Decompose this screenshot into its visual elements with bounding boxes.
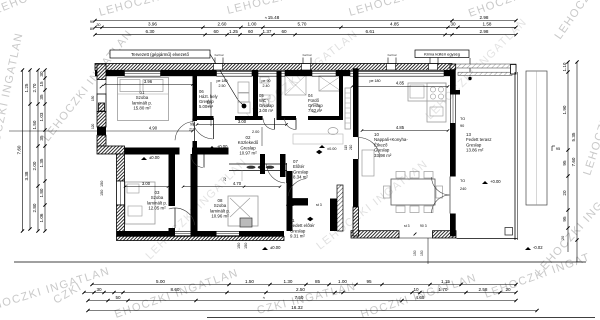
svg-text:1.80: 1.80 <box>39 188 44 197</box>
svg-text:8.60: 8.60 <box>171 287 180 292</box>
svg-text:1.37: 1.37 <box>263 29 272 34</box>
svg-text:1.30: 1.30 <box>284 279 293 284</box>
svg-text:85: 85 <box>315 279 321 284</box>
svg-text:±0.00: ±0.00 <box>327 147 336 151</box>
svg-text:-0.02: -0.02 <box>533 245 543 250</box>
svg-text:30: 30 <box>96 287 102 292</box>
svg-text:7.50: 7.50 <box>295 295 304 300</box>
svg-text:1.10: 1.10 <box>562 62 567 71</box>
svg-text:35: 35 <box>39 135 44 141</box>
svg-text:TO: TO <box>460 117 465 121</box>
svg-text:210: 210 <box>189 128 195 132</box>
svg-text:5.00 m²: 5.00 m² <box>199 104 214 109</box>
svg-text:6.30: 6.30 <box>146 29 155 34</box>
svg-text:4.85: 4.85 <box>396 81 405 86</box>
svg-text:1.70: 1.70 <box>439 287 448 292</box>
svg-text:10.96 m²: 10.96 m² <box>211 214 229 219</box>
svg-text:2.98: 2.98 <box>480 15 489 20</box>
svg-text:1.03: 1.03 <box>39 112 44 121</box>
svg-text:20: 20 <box>562 190 567 196</box>
svg-text:4.65: 4.65 <box>416 295 425 300</box>
svg-text:1.00: 1.00 <box>248 22 257 27</box>
svg-text:150: 150 <box>420 250 424 256</box>
svg-text:13.86 m²: 13.86 m² <box>466 148 484 153</box>
svg-text:240: 240 <box>460 187 466 191</box>
svg-text:90: 90 <box>460 124 464 128</box>
svg-text:15: 15 <box>39 81 44 87</box>
svg-text:150: 150 <box>244 243 248 249</box>
svg-text:80: 80 <box>90 27 94 31</box>
svg-text:1.25: 1.25 <box>24 83 29 92</box>
svg-text:20: 20 <box>561 236 565 240</box>
svg-text:150: 150 <box>413 250 417 256</box>
svg-text:2.80: 2.80 <box>32 203 37 212</box>
svg-text:2.60: 2.60 <box>218 22 227 27</box>
svg-text:95: 95 <box>562 160 567 166</box>
svg-text:st 3: st 3 <box>404 224 410 228</box>
svg-text:4.90: 4.90 <box>149 126 158 131</box>
svg-text:±0.00: ±0.00 <box>270 245 281 250</box>
svg-text:90 3: 90 3 <box>420 224 427 228</box>
svg-text:3.96: 3.96 <box>144 79 153 84</box>
svg-text:1.35: 1.35 <box>39 158 44 167</box>
svg-text:9.31 m²: 9.31 m² <box>290 234 305 239</box>
svg-text:150: 150 <box>100 181 104 187</box>
svg-text:7.60: 7.60 <box>571 157 576 166</box>
svg-text:1.50: 1.50 <box>32 120 37 129</box>
svg-text:±0.00: ±0.00 <box>149 155 160 160</box>
svg-text:2.00: 2.00 <box>252 130 259 134</box>
svg-text:2.50: 2.50 <box>219 84 226 88</box>
svg-text:+0.00: +0.00 <box>490 179 501 184</box>
svg-text:30: 30 <box>39 71 44 77</box>
svg-text:bal bal: bal bal <box>303 53 312 57</box>
svg-text:150: 150 <box>91 95 95 101</box>
svg-text:30: 30 <box>97 23 101 27</box>
svg-text:2.70: 2.70 <box>32 83 37 92</box>
svg-text:22: 22 <box>223 177 227 181</box>
svg-text:10.97 m²: 10.97 m² <box>239 151 257 156</box>
svg-text:1.90: 1.90 <box>562 105 567 114</box>
svg-text:95: 95 <box>366 279 372 284</box>
svg-text:±0.00: ±0.00 <box>217 144 228 149</box>
svg-text:1.00: 1.00 <box>338 279 347 284</box>
svg-text:bal bal: bal bal <box>215 53 224 57</box>
svg-text:60: 60 <box>248 29 254 34</box>
svg-text:210: 210 <box>349 144 353 150</box>
svg-text:30: 30 <box>450 22 456 27</box>
svg-text:60: 60 <box>281 29 287 34</box>
svg-text:2.40: 2.40 <box>263 84 270 88</box>
svg-text:60: 60 <box>213 29 219 34</box>
svg-text:5.70: 5.70 <box>298 22 307 27</box>
svg-text:1.25: 1.25 <box>229 29 238 34</box>
svg-text:3.38: 3.38 <box>24 171 29 180</box>
svg-text:115: 115 <box>344 145 348 150</box>
svg-text:12.05 m²: 12.05 m² <box>148 206 166 211</box>
svg-text:am 6: am 6 <box>286 203 294 207</box>
svg-text:pe 90: pe 90 <box>262 79 271 83</box>
svg-text:5.00: 5.00 <box>156 279 165 284</box>
svg-text:2.98: 2.98 <box>480 29 489 34</box>
svg-text:15.80 m²: 15.80 m² <box>133 106 151 111</box>
svg-text:TO: TO <box>460 179 465 183</box>
svg-text:pe 180: pe 180 <box>217 79 228 83</box>
svg-text:1.58: 1.58 <box>483 22 492 27</box>
svg-text:95: 95 <box>562 216 567 222</box>
svg-text:3.96: 3.96 <box>148 22 157 27</box>
svg-text:90: 90 <box>190 123 194 127</box>
svg-text:2.50: 2.50 <box>296 287 305 292</box>
svg-text:4.85: 4.85 <box>390 22 399 27</box>
svg-text:4.70: 4.70 <box>233 181 242 186</box>
svg-text:15.48: 15.48 <box>268 15 280 20</box>
svg-text:1.06: 1.06 <box>39 213 44 222</box>
svg-text:90: 90 <box>90 20 94 24</box>
svg-text:20: 20 <box>505 287 511 292</box>
svg-text:8.34 m²: 8.34 m² <box>293 175 308 180</box>
svg-text:6.61: 6.61 <box>366 29 375 34</box>
svg-text:95: 95 <box>556 146 561 151</box>
svg-text:7.52 m²: 7.52 m² <box>308 108 323 113</box>
svg-text:7.60: 7.60 <box>17 145 22 154</box>
svg-text:Tervezett (gépjármű) elvezető: Tervezett (gépjármű) elvezető <box>131 52 189 57</box>
svg-text:33.98 m²: 33.98 m² <box>374 153 392 158</box>
svg-text:2.00: 2.00 <box>32 161 37 170</box>
svg-text:50: 50 <box>115 295 121 300</box>
svg-text:150: 150 <box>100 190 104 196</box>
svg-text:150: 150 <box>237 243 241 249</box>
svg-text:2.58: 2.58 <box>479 287 488 292</box>
svg-text:3.00: 3.00 <box>142 181 151 186</box>
svg-text:16.32: 16.32 <box>291 305 303 310</box>
svg-text:120: 120 <box>91 123 95 129</box>
svg-text:5.35: 5.35 <box>571 132 576 141</box>
svg-text:bal bal: bal bal <box>388 53 397 57</box>
svg-text:Klíma kültéri egység: Klíma kültéri egység <box>424 52 460 57</box>
svg-text:1.50: 1.50 <box>245 279 254 284</box>
svg-text:4.85: 4.85 <box>396 125 405 130</box>
svg-text:st 3: st 3 <box>316 203 322 207</box>
svg-text:35: 35 <box>39 94 44 100</box>
svg-text:1.15: 1.15 <box>441 279 450 284</box>
svg-text:10: 10 <box>413 287 419 292</box>
svg-text:3.00: 3.00 <box>238 119 247 124</box>
svg-text:3.00 m²: 3.00 m² <box>259 108 274 113</box>
svg-text:pe 180: pe 180 <box>370 79 381 83</box>
